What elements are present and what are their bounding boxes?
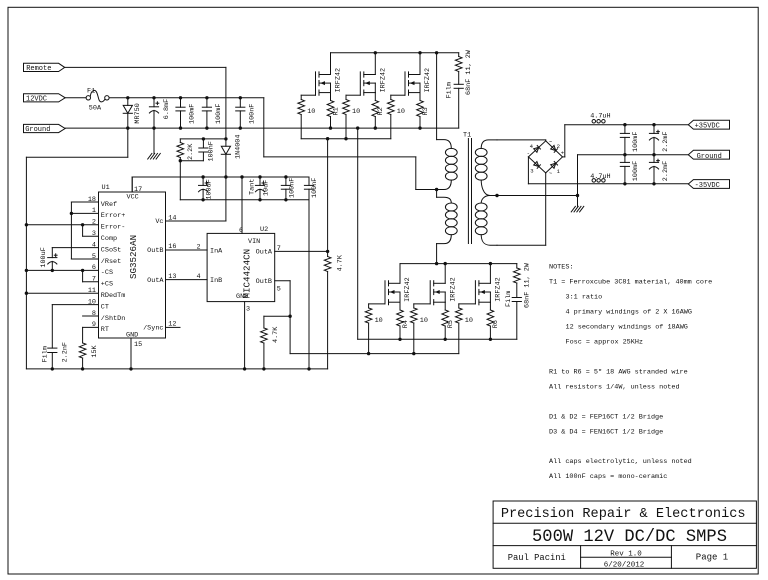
node +35VDC output tag <box>688 120 729 130</box>
transformer T1 core <box>463 131 472 243</box>
capacitor 100uF soft-start <box>40 247 57 270</box>
svg-text:RDedTm: RDedTm <box>101 292 125 300</box>
svg-text:100mF: 100mF <box>189 104 197 124</box>
svg-text:Vc: Vc <box>155 218 163 226</box>
svg-text:10: 10 <box>397 108 405 116</box>
wire U1 pin 6 to ground rail <box>26 269 98 271</box>
resistor R6 source wire <box>487 302 500 339</box>
wire U1 OutB to U2 InA <box>166 249 208 251</box>
svg-text:14: 14 <box>168 214 176 222</box>
wire U1 pin 7 bracket <box>83 270 99 281</box>
svg-text:-35VDC: -35VDC <box>695 182 720 190</box>
svg-text:Remote: Remote <box>26 65 51 73</box>
svg-text:NOTES:: NOTES: <box>549 263 573 271</box>
svg-text:F1: F1 <box>87 87 95 95</box>
diode 1N4004 <box>221 135 242 159</box>
capacitor Tant 10uF <box>249 177 271 200</box>
svg-text:IRFZ42: IRFZ42 <box>424 68 432 92</box>
svg-text:Page 1: Page 1 <box>696 553 728 563</box>
diode D1 bridge lower-right <box>546 157 563 175</box>
svg-text:10uF: 10uF <box>263 180 271 196</box>
op-amp U1 SG3526AN PWM controller <box>88 184 177 349</box>
resistor 4.7K OutB pulldown <box>261 316 280 369</box>
diode D3 bridge lower-left <box>528 157 545 174</box>
capacitor 100nF VCC B <box>304 177 318 200</box>
wire T1 secondary top AC to bridge <box>497 140 546 141</box>
transistor Q3 IRFZ42 (top bank) <box>405 53 432 95</box>
svg-text:9: 9 <box>92 321 96 329</box>
svg-text:100nF: 100nF <box>311 178 319 198</box>
svg-text:R1: R1 <box>332 107 340 115</box>
title block <box>493 501 756 570</box>
wire ground run to U1 left rail <box>26 157 127 369</box>
svg-text:VRef: VRef <box>101 201 117 209</box>
svg-text:VIN: VIN <box>248 238 260 246</box>
wire U1 pin 9 RT to 15K <box>83 327 99 343</box>
svg-text:2.2K: 2.2K <box>187 143 195 160</box>
capacitor 6.8mF <box>149 98 171 128</box>
fuse F1 50A <box>65 87 128 112</box>
svg-text:2: 2 <box>197 243 201 251</box>
resistor 4.7K OutA pulldown <box>324 251 344 369</box>
svg-text:GND: GND <box>126 332 138 340</box>
svg-text:10: 10 <box>88 298 96 306</box>
svg-text:10: 10 <box>375 317 383 325</box>
svg-text:68nF 11, 2W: 68nF 11, 2W <box>465 49 473 95</box>
svg-text:5: 5 <box>92 253 96 261</box>
svg-text:U1: U1 <box>102 184 110 192</box>
svg-text:+35VDC: +35VDC <box>695 123 720 131</box>
notes text block <box>549 263 712 481</box>
capacitor 2.2nF Film <box>42 342 70 369</box>
wire U1 pin 12 /Sync stub <box>166 326 181 328</box>
svg-text:6.8mF: 6.8mF <box>163 99 171 119</box>
capacitor-resistor snubber top (11 ohm 2W + 68nF Film) <box>446 49 474 128</box>
wire 12V feed to T1 primary center tap <box>264 98 437 190</box>
svg-text:Error-: Error- <box>101 224 125 232</box>
svg-text:500W 12V DC/DC SMPS: 500W 12V DC/DC SMPS <box>532 528 727 547</box>
svg-text:IRFZ42: IRFZ42 <box>380 68 388 92</box>
wire bottom drain bus <box>400 263 517 265</box>
node bridge AC marks <box>527 139 565 178</box>
svg-text:IRFZ42: IRFZ42 <box>404 277 412 301</box>
svg-text:15K: 15K <box>91 344 99 357</box>
svg-text:4 primary windings of 2 X 16AW: 4 primary windings of 2 X 16AWG <box>566 309 692 317</box>
svg-text:68nF 11, 2W: 68nF 11, 2W <box>524 262 532 308</box>
wire U1 pin 11 to ground rail <box>26 292 98 294</box>
svg-text:100nF: 100nF <box>208 141 216 161</box>
svg-text:SG3526AN: SG3526AN <box>128 235 139 279</box>
resistor 10 ohm gate (top 3) <box>388 95 406 139</box>
transistor Q4 IRFZ42 (bottom bank) <box>385 264 412 305</box>
svg-text:Ground: Ground <box>25 126 50 134</box>
wire T1 primary center tap <box>436 190 438 198</box>
svg-text:R5: R5 <box>447 320 455 328</box>
svg-text:10: 10 <box>465 317 473 325</box>
svg-text:T1 = Ferroxcube 3C81 material,: T1 = Ferroxcube 3C81 material, 40mm core <box>549 279 712 287</box>
wire 4.7K OutB stub <box>264 315 290 317</box>
wire U1 pin 15 GND stub <box>130 338 132 369</box>
svg-text:2.2mF: 2.2mF <box>662 131 670 151</box>
svg-text:2: 2 <box>92 219 96 227</box>
wire remote node bottom bracket <box>180 161 203 200</box>
inductor T1 primary lower winding <box>437 197 458 243</box>
svg-text:Fosc = approx 25KHz: Fosc = approx 25KHz <box>566 339 644 347</box>
svg-text:MIC4424CN: MIC4424CN <box>242 249 253 299</box>
capacitor 2.2mF +35V <box>649 125 670 155</box>
svg-text:R6: R6 <box>492 320 500 328</box>
wire T1 secondary bottom AC to bridge <box>497 173 546 245</box>
capacitor 2.2mF -35V <box>649 155 670 184</box>
wire top gate drive bus <box>301 138 391 140</box>
svg-text:100uF: 100uF <box>206 179 214 199</box>
capacitor 100mF input B <box>202 98 223 128</box>
svg-text:All caps electrolytic, unless: All caps electrolytic, unless noted <box>549 458 692 466</box>
diode D2 bridge upper-right <box>546 141 563 157</box>
resistor R4 source wire <box>397 302 410 339</box>
svg-text:D3 & D4 = FEN16CT 1/2 Bridge: D3 & D4 = FEN16CT 1/2 Bridge <box>549 428 663 436</box>
wire ground link to bottom bank <box>357 128 359 339</box>
capacitor 100nF VCC A <box>281 177 296 200</box>
node Ground output tag <box>688 150 729 161</box>
wire 12VDC rail <box>128 97 264 99</box>
transistor Q5 IRFZ42 (bottom bank) <box>430 264 457 305</box>
svg-text:Tant: Tant <box>249 179 257 195</box>
svg-text:1N4004: 1N4004 <box>235 135 243 159</box>
resistor R1 source wire <box>327 93 340 129</box>
svg-text:100mF: 100mF <box>632 161 640 181</box>
svg-text:2: 2 <box>557 143 560 150</box>
wire T1 secondary center tap to output ground <box>497 195 578 197</box>
svg-text:3: 3 <box>92 230 96 238</box>
node -35VDC output tag <box>688 180 729 190</box>
resistor 2.2K <box>177 139 195 161</box>
svg-text:100nF: 100nF <box>248 104 256 124</box>
resistor 10 ohm gate (bottom 6) <box>456 304 476 354</box>
svg-text:RT: RT <box>101 326 109 334</box>
svg-text:3:1 ratio: 3:1 ratio <box>566 294 603 302</box>
wire T1 primary bottom feed <box>436 244 438 264</box>
resistor 10 ohm gate (bottom 4) <box>365 304 385 354</box>
svg-text:4.7uH: 4.7uH <box>590 173 610 181</box>
svg-text:/Sync: /Sync <box>143 325 163 333</box>
svg-text:2.2nF: 2.2nF <box>62 342 70 362</box>
wire U1 OutA to U2 InB <box>166 279 208 281</box>
wire VCC rail <box>132 177 309 192</box>
svg-text:10: 10 <box>352 108 360 116</box>
wire ground rail <box>65 127 459 129</box>
svg-text:OutB: OutB <box>256 278 272 286</box>
svg-text:4.7K: 4.7K <box>337 254 345 271</box>
wire U1 pin 10 CT to 2.2nF <box>52 305 98 349</box>
svg-text:8: 8 <box>92 310 96 318</box>
transistor Q6 IRFZ42 (bottom bank) <box>475 264 502 305</box>
svg-text:1: 1 <box>557 168 561 175</box>
transistor Q1 IRFZ42 (top bank) <box>316 53 343 95</box>
wire U1 pin 17 VCC stub <box>131 177 133 192</box>
svg-text:18: 18 <box>88 196 96 204</box>
svg-text:12VDC: 12VDC <box>26 96 47 104</box>
ground chassis symbol (output) <box>571 196 584 212</box>
inductor 4.7uH -35V <box>590 173 610 182</box>
svg-text:6/20/2012: 6/20/2012 <box>604 562 645 570</box>
wire U1 pin 3 bracket <box>83 225 99 236</box>
node Ground input tag <box>24 124 66 134</box>
wire top drain bus <box>331 52 459 54</box>
svg-text:R3: R3 <box>422 107 430 115</box>
svg-text:3: 3 <box>530 167 533 174</box>
svg-text:D1 & D2 = FEP16CT 1/2 Bridge: D1 & D2 = FEP16CT 1/2 Bridge <box>549 413 663 421</box>
resistor 10 ohm gate (top 1) <box>298 95 316 139</box>
svg-text:Ground: Ground <box>697 153 722 161</box>
svg-text:Rev 1.0: Rev 1.0 <box>610 551 642 559</box>
svg-text:Film: Film <box>446 82 454 98</box>
svg-text:R4: R4 <box>402 320 410 328</box>
wire Remote net (tag to 1N4004 anode bracket) <box>65 67 226 138</box>
svg-text:All resistors 1/4W, unless not: All resistors 1/4W, unless noted <box>549 384 680 392</box>
svg-text:IRFZ42: IRFZ42 <box>335 68 343 92</box>
svg-text:50A: 50A <box>89 105 102 113</box>
svg-text:7: 7 <box>92 276 96 284</box>
diode MR750 <box>123 98 142 128</box>
svg-text:Paul Pacini: Paul Pacini <box>508 553 566 563</box>
wire U2 OutB to bottom gate bus <box>275 281 290 354</box>
svg-text:~: ~ <box>549 170 553 177</box>
svg-text:CT: CT <box>101 303 109 311</box>
wire U2 pin 3 GND stub <box>244 302 246 369</box>
svg-text:-: - <box>527 150 530 157</box>
resistor 10 ohm gate (top 2) <box>343 95 361 139</box>
capacitor 100uF VCC <box>199 177 214 200</box>
svg-text:/ShtDn: /ShtDn <box>101 315 125 323</box>
svg-text:12 secondary windings of 18AWG: 12 secondary windings of 18AWG <box>566 324 688 332</box>
capacitor-resistor snubber bottom (11 ohm 2W + 68nF Film) <box>505 262 532 339</box>
capacitor 100mF +35V <box>620 125 640 155</box>
svg-text:CSoSt: CSoSt <box>101 246 121 254</box>
svg-text:OutB: OutB <box>147 247 163 255</box>
svg-text:100mF: 100mF <box>632 132 640 152</box>
wire U1 pin 8 stub <box>83 315 99 317</box>
wire 1N4004 cathode to Vc <box>166 154 226 221</box>
svg-text:T1: T1 <box>463 131 471 139</box>
wire U2 OutA to gate bus drop <box>275 139 328 252</box>
svg-text:15: 15 <box>134 341 142 349</box>
svg-text:R1 to R6 = 5" 18 AWG stranded: R1 to R6 = 5" 18 AWG stranded wire <box>549 369 688 377</box>
svg-text:100nF: 100nF <box>289 178 297 198</box>
svg-text:IRFZ42: IRFZ42 <box>449 277 457 301</box>
svg-text:InB: InB <box>210 277 222 285</box>
capacitor 100mF -35V <box>620 155 640 184</box>
inductor T1 secondary upper winding <box>475 140 497 196</box>
wire U1 pin 4 to 100uF <box>52 247 98 249</box>
op-amp U2 MIC4424CN driver <box>197 226 281 313</box>
svg-text:~: ~ <box>549 139 553 146</box>
svg-text:MR750: MR750 <box>134 103 142 123</box>
svg-text:4: 4 <box>197 273 201 281</box>
wire bottom ground rail <box>26 368 327 370</box>
resistor R5 source wire <box>442 302 455 339</box>
svg-text:-CS: -CS <box>101 269 113 277</box>
node Remote input tag <box>24 63 65 73</box>
capacitor 100nF input C <box>236 98 257 128</box>
svg-text:1: 1 <box>92 207 96 215</box>
resistor R2 source wire <box>372 93 385 129</box>
inductor T1 primary upper winding <box>437 140 458 190</box>
inductor T1 secondary lower winding <box>475 196 497 246</box>
svg-text:Error+: Error+ <box>101 212 125 220</box>
svg-text:All 100nF caps = mono-ceramic: All 100nF caps = mono-ceramic <box>549 473 667 481</box>
svg-text:OutA: OutA <box>256 249 273 257</box>
svg-text:Film: Film <box>505 291 513 307</box>
svg-text:6: 6 <box>92 264 96 272</box>
svg-text:IRFZ42: IRFZ42 <box>495 277 503 301</box>
svg-text:100mF: 100mF <box>215 104 223 124</box>
wire T1 primary top feed <box>436 53 438 140</box>
svg-text:Precision Repair & Electronics: Precision Repair & Electronics <box>501 507 746 522</box>
transistor Q2 IRFZ42 (top bank) <box>360 53 387 95</box>
svg-text:/Rset: /Rset <box>101 258 121 266</box>
wire VCC ground drop to bottom rail <box>308 200 310 369</box>
svg-text:2.2mF: 2.2mF <box>662 161 670 181</box>
wire +35V rail <box>563 125 689 157</box>
svg-text:VCC: VCC <box>127 194 139 202</box>
svg-text:4.7uH: 4.7uH <box>590 113 610 121</box>
node 12VDC input tag <box>24 94 66 104</box>
svg-text:3: 3 <box>246 305 250 313</box>
svg-text:4: 4 <box>92 241 96 249</box>
svg-text:10: 10 <box>420 317 428 325</box>
wire ground drop (MR750 cathode to left rail) <box>127 128 129 157</box>
resistor 15K <box>79 343 99 369</box>
wire bottom source ground bus <box>358 338 517 340</box>
wire U2 pin 6 VIN stub <box>241 177 243 233</box>
ground chassis symbol (input) <box>148 128 161 159</box>
svg-text:4.7K: 4.7K <box>272 326 280 343</box>
svg-text:100uF: 100uF <box>40 247 48 267</box>
diode D4 bridge upper-left <box>528 141 545 157</box>
svg-text:+CS: +CS <box>101 281 113 289</box>
svg-text:R2: R2 <box>377 107 385 115</box>
wire bottom gate drive bus <box>290 353 459 355</box>
svg-text:10: 10 <box>307 108 315 116</box>
svg-text:5: 5 <box>277 285 281 293</box>
svg-text:InA: InA <box>210 247 223 255</box>
svg-text:Comp: Comp <box>101 235 117 243</box>
resistor 10 ohm gate (bottom 5) <box>411 304 431 354</box>
wire -35V rail <box>528 157 688 184</box>
capacitor 100nF remote <box>199 139 216 162</box>
svg-text:OutA: OutA <box>147 277 164 285</box>
svg-text:11: 11 <box>88 287 96 295</box>
wire remote node bracket <box>180 138 226 140</box>
capacitor 100mF input A <box>176 98 197 128</box>
wire decoupling ground rail <box>180 199 309 201</box>
wire U1 pins 18-1-5 bracket <box>71 202 98 259</box>
wire output ground rail <box>578 155 689 196</box>
inductor 4.7uH +35V <box>590 113 610 123</box>
resistor R3 source wire <box>417 93 430 129</box>
svg-text:Film: Film <box>42 346 50 362</box>
wire U1 pin 2 to ground rail <box>26 224 98 226</box>
svg-text:U2: U2 <box>260 226 268 234</box>
svg-text:+: + <box>561 149 565 156</box>
